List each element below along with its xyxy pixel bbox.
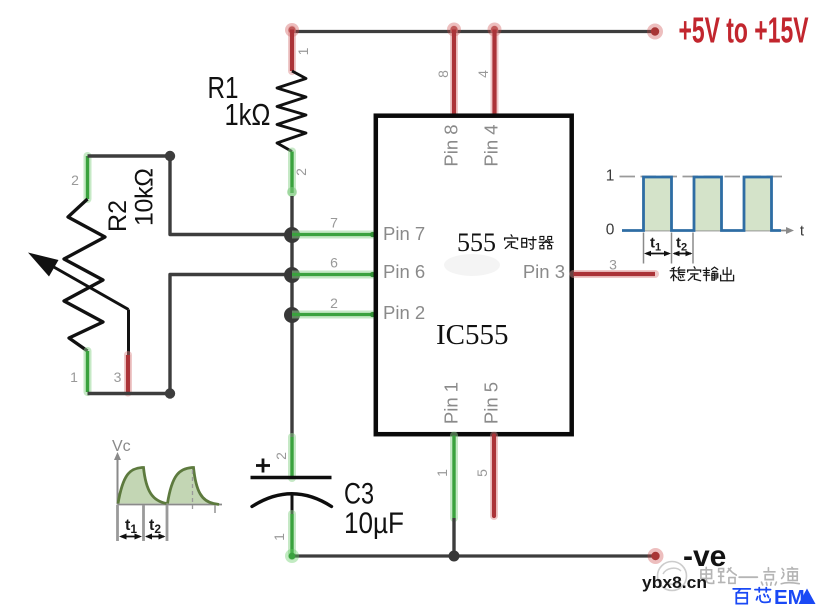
arrow t1 [644, 251, 671, 257]
guide line 2 [142, 505, 145, 541]
node R2 top corner [165, 151, 175, 161]
wire R2 bottom to pin6 trunk [88, 275, 293, 394]
wire R1 bottom green segment pin2 [287, 152, 297, 198]
label 稳定输出 (stable output) [670, 267, 733, 281]
svg-text:Pin 6: Pin 6 [383, 261, 425, 282]
output waveform chart [606, 168, 805, 264]
svg-text:+5V to +15V: +5V to +15V [679, 10, 809, 51]
node top rail left end [285, 23, 299, 37]
tick end [214, 505, 216, 513]
pulse 1 fill [644, 177, 672, 231]
wire R2 pin2 green segment [84, 156, 92, 199]
svg-text:EM: EM [774, 586, 805, 609]
wire R2 pin3 wiper red segment [124, 355, 132, 393]
wire green pin6 [292, 272, 375, 277]
Vc vertical axis [117, 458, 119, 505]
time axis [622, 230, 789, 232]
wire top power rail [292, 30, 656, 33]
watermark smudge [444, 254, 500, 276]
svg-text:3: 3 [609, 257, 617, 273]
wire vertical trunk x292 [290, 196, 293, 437]
square wave trace [622, 177, 781, 231]
wire red pin4 from rail [491, 30, 499, 117]
Vc hump 2 trace [168, 468, 220, 505]
svg-text:R2: R2 [104, 200, 132, 232]
capacitor C3 plus sign [256, 459, 270, 473]
svg-text:C3: C3 [344, 478, 374, 511]
svg-text:ybx8.cn: ybx8.cn [642, 574, 707, 592]
label 定时器 (timer) [505, 235, 554, 249]
node bottom rail right end [648, 548, 664, 564]
Vc horizontal axis [118, 504, 223, 506]
svg-text:2: 2 [293, 168, 309, 176]
svg-text:6: 6 [330, 255, 338, 271]
svg-text:Pin 2: Pin 2 [383, 302, 425, 323]
svg-text:7: 7 [330, 215, 338, 231]
node bottom rail pin1 junction [449, 551, 460, 562]
op-amp / IC555 timer box U1 [376, 116, 572, 435]
dashed level-1 line [620, 176, 787, 178]
svg-text:2: 2 [273, 452, 289, 460]
potentiometer R2 zigzag [64, 199, 105, 351]
wire bottom ground rail [292, 554, 656, 557]
svg-text:1: 1 [271, 533, 287, 541]
svg-text:555: 555 [457, 228, 496, 257]
svg-text:5: 5 [474, 469, 490, 477]
wire green pin1 [450, 436, 458, 557]
svg-text:Pin 8: Pin 8 [441, 124, 462, 166]
Vc waveform chart [112, 438, 222, 541]
Vc hump 2 fill [168, 468, 214, 504]
capacitor C3 top green wire pin2 [288, 437, 296, 478]
dashed guide hump2 [192, 470, 194, 511]
node top rail pin4 junction [488, 23, 502, 37]
node bottom rail left end green [285, 549, 299, 563]
svg-text:Pin 5: Pin 5 [481, 382, 502, 424]
svg-text:2: 2 [71, 172, 79, 188]
wire R1 top red segment pin1 [288, 30, 296, 72]
wire from R2 top to corner [88, 156, 293, 235]
t1 t2 guide lines [643, 233, 645, 264]
Vc hump 1 fill [118, 468, 167, 504]
wire R2 pin1 green segment [84, 351, 92, 392]
svg-text:Pin 3: Pin 3 [523, 261, 565, 282]
wire red pin8 from rail [450, 30, 458, 117]
svg-text:2: 2 [330, 295, 338, 311]
node junction pin7 [284, 227, 300, 243]
Vc hump 1 trace [118, 468, 167, 504]
pulse 3 fill [744, 177, 772, 231]
capacitor C3 bottom green wire pin1 [288, 514, 296, 556]
wire green pin2 [292, 312, 375, 317]
svg-text:10µF: 10µF [344, 507, 404, 540]
guide line 1 [116, 505, 119, 541]
svg-text:1: 1 [70, 369, 78, 385]
svg-text:1: 1 [295, 47, 311, 55]
wire red pin3 output [574, 270, 656, 278]
wire green pin7 [292, 232, 375, 237]
node R2 bottom corner [165, 388, 175, 398]
svg-text:Pin 7: Pin 7 [383, 223, 425, 244]
arrow t2 [673, 251, 693, 257]
svg-text:IC555: IC555 [436, 319, 509, 351]
node top rail pin8 junction [447, 23, 461, 37]
node junction pin2 [284, 307, 300, 323]
potentiometer R2 wiper arrow [28, 253, 129, 357]
resistor R1 [277, 71, 306, 152]
svg-text:3: 3 [114, 369, 122, 385]
svg-text:10kΩ: 10kΩ [131, 168, 159, 226]
node junction pin6 [284, 267, 300, 283]
wire red pin5 hanging [490, 436, 498, 517]
svg-text:8: 8 [435, 70, 451, 78]
svg-text:Vc: Vc [112, 438, 131, 455]
svg-text:1: 1 [434, 469, 450, 477]
svg-text:4: 4 [475, 70, 491, 78]
capacitor C3 [251, 478, 332, 517]
svg-text:1: 1 [606, 168, 615, 185]
guide line 3 [166, 505, 169, 541]
node top rail right end [647, 24, 663, 40]
watermark 电路一点通 [658, 562, 800, 591]
arrow t1 [119, 534, 142, 540]
arrow t2 [145, 534, 166, 540]
svg-text:1kΩ: 1kΩ [225, 97, 271, 132]
watermark 百芯 EMA blue [733, 586, 815, 609]
svg-text:Pin 1: Pin 1 [441, 382, 462, 424]
pulse 2 fill [694, 177, 722, 231]
svg-text:0: 0 [606, 222, 615, 239]
svg-text:Pin 4: Pin 4 [481, 124, 502, 166]
